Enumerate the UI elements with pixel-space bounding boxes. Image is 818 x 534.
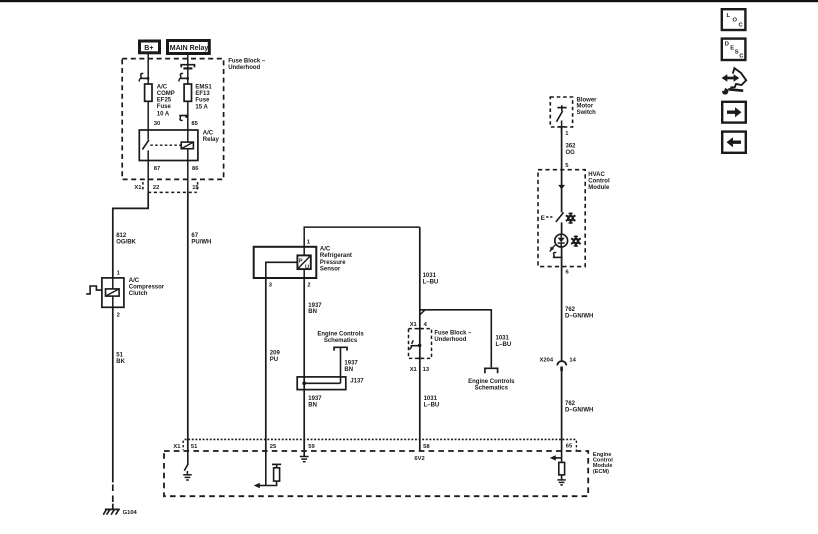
svg-text:Clutch: Clutch [129,291,148,297]
wire X1-22 down, jog left, to clutch [113,193,148,278]
svg-text:S: S [735,49,739,55]
wire X204 to ECM pin 65 [561,371,563,451]
label 812 OG/BK [116,233,136,245]
MAIN Relay terminal box [168,41,210,54]
wire dashed segment to G104 [112,485,114,504]
A/C refrigerant pressure sensor box [254,247,317,278]
svg-text:Schematics: Schematics [324,338,358,344]
lamp illumination arrows [550,245,556,252]
label A/C Compressor Clutch [129,278,165,297]
svg-text:C: C [739,22,744,28]
svg-text:2: 2 [307,282,310,288]
svg-text:6: 6 [566,270,570,276]
svg-text:1937: 1937 [308,396,322,402]
svg-text:OG/BK: OG/BK [116,239,136,245]
relay coil [181,130,193,161]
svg-text:Motor: Motor [577,104,594,110]
ground G104 [103,509,120,514]
svg-text:30: 30 [154,121,160,127]
label 67 PU/WH [191,233,211,245]
svg-text:L–BU: L–BU [496,342,512,348]
svg-text:6V2: 6V2 [414,456,424,462]
fuse A/C COMP EF25 10A [145,84,152,101]
svg-text:G104: G104 [123,510,138,516]
label 362 OG [566,144,577,156]
A/C compressor clutch box [102,278,124,307]
svg-text:EMS1: EMS1 [195,84,212,90]
label Fuse Block - Underhood (pass-through) [434,331,472,343]
label 1937 BN lower [308,396,322,408]
svg-text:Schematics: Schematics [475,386,509,392]
svg-text:EF25: EF25 [157,97,172,103]
wire X1-15 down to ECM pin 51 [187,193,189,451]
wire clutch pin 2 to ground [112,307,114,482]
fuse block feed bracket under MAIN Relay [181,65,194,69]
svg-text:Refrigerant: Refrigerant [320,253,352,259]
svg-text:A/C: A/C [320,247,331,253]
svg-text:Control: Control [588,179,610,185]
svg-text:4: 4 [424,322,428,328]
A/C relay box U-relay [139,130,198,161]
blower motor switch dashed box [550,97,572,127]
svg-text:1031: 1031 [424,396,438,402]
connector clip on MAIN Relay wire [179,73,189,81]
in-line connector X204 pin 14 [540,358,577,372]
label Engine Controls Schematics (branch) [468,379,515,392]
svg-text:Underhood: Underhood [434,337,466,343]
label HVAC Control Module [588,172,610,191]
svg-text:OG: OG [566,150,576,156]
svg-text:13: 13 [423,367,430,373]
svg-text:PU/WH: PU/WH [191,239,211,245]
svg-text:Pressure: Pressure [320,260,346,266]
wire sensor pin 3 to ECM pin 25 [265,278,267,451]
svg-text:X204: X204 [540,358,554,364]
ground below pin 59 [300,451,309,462]
wire branch to splice J137 [340,347,342,383]
svg-text:B+: B+ [144,45,153,52]
connector X1 dashed strip at fuse block [143,182,198,192]
svg-text:762: 762 [565,307,576,313]
svg-text:3: 3 [269,282,273,288]
ECM internal arrow + resistor + ground below pin 65 [550,451,566,485]
svg-text:1031: 1031 [423,273,437,279]
svg-text:Compressor: Compressor [129,285,165,291]
svg-text:D–GN/WH: D–GN/WH [565,314,593,320]
svg-text:51: 51 [116,352,123,358]
connector clip inside pass-through [409,329,422,359]
svg-text:L–BU: L–BU [423,279,439,285]
svg-text:X1: X1 [134,185,142,191]
svg-text:COMP: COMP [157,91,175,97]
toolbar back (left arrow) button [722,132,746,153]
svg-text:Fuse: Fuse [157,104,172,110]
svg-text:Underhood: Underhood [228,65,260,71]
fuse block underhood pass-through dashed box [409,329,432,359]
svg-text:1937: 1937 [308,303,322,309]
svg-text:J137: J137 [350,378,364,384]
HVAC control module dashed box [538,170,585,267]
label X1 pin 4 [410,322,428,328]
clutch coil [106,278,120,307]
label Engine Control Module (ECM) [593,452,613,475]
wire blower switch to HVAC module [561,127,563,170]
fuse EMS1 EF13 15A [184,84,191,101]
HVAC A/C request switch with E node [541,212,564,234]
wire HVAC pin 6 to X204 [561,267,563,361]
label 1937 BN upper [308,303,322,315]
top border bar [0,0,818,2]
svg-text:15 A: 15 A [195,104,208,110]
wire relay pin 86 down [187,161,189,195]
ECM connector dotted strip [185,438,577,440]
svg-text:362: 362 [566,144,577,150]
blower switch contact [557,105,567,133]
svg-text:L–BU: L–BU [424,403,440,409]
label X1 pin 13 [410,367,430,373]
toolbar LOC button [722,9,746,30]
wire MAIN Relay to fuse EF13 [187,54,189,85]
svg-text:A/C: A/C [157,84,168,90]
ECM dashed box [164,451,588,496]
label Blower Motor Switch [577,97,598,116]
toolbar wrench/arrows icon [721,68,747,94]
svg-text:MAIN Relay: MAIN Relay [170,45,209,52]
wire B+ to fuse EF25 [147,53,149,84]
B+ terminal box [140,41,160,53]
svg-text:P: P [299,258,303,264]
sensor P/U transducer square [297,255,310,270]
ECM internal pull-up and output below pin 25 [254,451,281,488]
label 1031 L-BU lower [424,396,440,408]
toolbar next (right arrow) button [722,102,746,123]
label fuse EF25 [157,84,175,117]
relay switch contact [142,130,180,161]
label fuse EF13 [195,84,212,110]
connector clip on B+ wire [139,73,149,81]
svg-text:A/C: A/C [203,131,214,137]
svg-text:Sensor: Sensor [320,266,341,272]
wire sensor pin 2 to ECM pin 59 [303,278,305,451]
label 51 BK [116,352,125,364]
svg-text:BK: BK [116,359,125,365]
snowflake icon upper [566,213,576,224]
svg-text:1: 1 [117,270,121,276]
svg-text:BN: BN [308,309,317,315]
junction dot J137 [302,381,306,385]
wire relay pin 87 down [147,161,149,195]
label Fuse Block - Underhood [228,58,266,70]
sensor internal wires [266,247,304,278]
svg-text:(ECM): (ECM) [593,469,609,475]
svg-text:59: 59 [308,444,315,450]
svg-text:X1: X1 [410,367,418,373]
connector clip above relay pin 85 [179,115,188,121]
off-page bracket engine controls schematics [485,368,498,373]
svg-text:51: 51 [191,444,198,450]
clutch mechanical symbol [86,286,102,294]
svg-text:Module: Module [588,185,610,191]
label 209 PU [270,351,281,363]
svg-text:5: 5 [565,163,569,169]
wire 1031 L-BU main [419,227,421,451]
off-page bracket above 1937 BN branch [334,347,347,350]
svg-text:22: 22 [153,185,159,191]
label 762 D-GN/WH upper [565,307,593,319]
label 1937 BN branch [344,361,358,373]
label A/C Refrigerant Pressure Sensor [320,247,352,273]
ground below pin 51 [183,475,192,480]
svg-text:67: 67 [191,233,198,239]
svg-text:Blower: Blower [577,97,598,103]
connector X1 tick marks [183,441,576,451]
svg-text:HVAC: HVAC [588,172,605,178]
svg-text:1: 1 [307,240,311,246]
wire fuse EF13 to relay pin 85 [187,101,189,130]
svg-text:15: 15 [192,185,199,191]
svg-text:EF13: EF13 [195,91,210,97]
splice J137 box [297,377,346,390]
svg-text:X1: X1 [173,444,181,450]
label Engine Controls Schematics (J137 feed) [317,331,364,344]
HVAC indicator lamp [555,234,568,247]
connector clip inside HVAC [553,247,563,267]
svg-text:762: 762 [565,401,576,407]
wire fuse EF25 to relay pin 30 [147,101,149,130]
snowflake icon lower [571,236,581,247]
wire sensor pin 1 up and across to 1031 branch [304,227,420,247]
svg-text:Fuse: Fuse [195,98,210,104]
svg-text:A/C: A/C [129,278,140,284]
label 762 D-GN/WH lower [565,401,593,413]
svg-text:Engine Controls: Engine Controls [317,331,364,337]
svg-text:BN: BN [308,403,317,409]
fuse block underhood dashed box [122,59,223,180]
svg-text:Switch: Switch [577,110,597,116]
svg-text:C: C [739,53,744,59]
svg-text:86: 86 [192,166,199,172]
svg-text:65: 65 [566,444,573,450]
svg-text:209: 209 [270,351,281,357]
svg-text:Fuse Block –: Fuse Block – [228,58,266,64]
label 1031 L-BU upper [423,273,439,285]
svg-text:85: 85 [191,121,198,127]
label 1031 L-BU branch [496,335,512,347]
ECM internal switch to ground below pin 51 [184,451,188,475]
wire branch 1031 to engine controls schematics [420,310,492,368]
svg-text:58: 58 [423,444,430,450]
label A/C Relay [203,131,220,143]
svg-text:2: 2 [117,313,120,319]
svg-text:X1: X1 [410,322,418,328]
svg-text:D: D [725,42,729,48]
svg-text:U: U [305,264,309,270]
svg-text:O: O [733,18,738,24]
svg-text:25: 25 [270,444,277,450]
svg-text:1: 1 [565,131,569,137]
svg-text:L: L [727,13,731,19]
svg-text:10 A: 10 A [157,111,170,117]
svg-text:Relay: Relay [203,137,220,143]
svg-text:E: E [730,46,734,52]
HVAC internal wire and down-arrow [558,170,565,213]
svg-text:PU: PU [270,357,278,363]
svg-text:14: 14 [569,358,576,364]
svg-text:E: E [541,215,546,222]
svg-text:BN: BN [344,367,353,373]
svg-text:87: 87 [154,166,160,172]
svg-text:D–GN/WH: D–GN/WH [565,407,593,413]
toolbar DESC button [722,39,746,60]
svg-text:1031: 1031 [496,335,510,341]
svg-text:Engine Controls: Engine Controls [468,379,515,385]
svg-text:Fuse Block –: Fuse Block – [434,331,472,337]
svg-text:1937: 1937 [344,361,358,367]
svg-text:812: 812 [116,233,127,239]
